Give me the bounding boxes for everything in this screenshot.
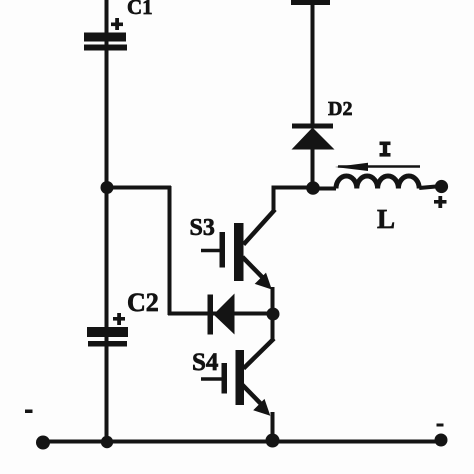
svg-text:S3: S3	[190, 215, 215, 241]
svg-text:D2: D2	[328, 98, 352, 120]
svg-text:L: L	[377, 204, 395, 234]
svg-text:C2: C2	[127, 288, 159, 317]
svg-text:C1: C1	[127, 0, 153, 19]
svg-text:S4: S4	[192, 349, 219, 376]
